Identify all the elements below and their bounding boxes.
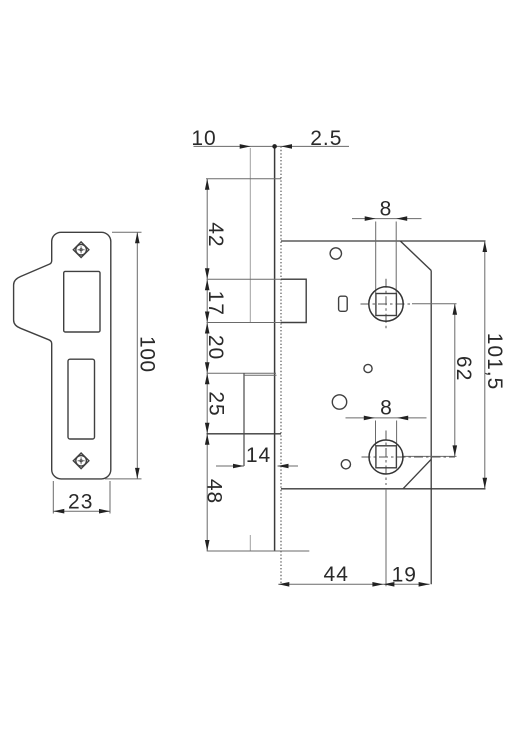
chain arrows 25 bbox=[205, 373, 210, 434]
dim 101.5 arrows bbox=[483, 241, 488, 489]
shared dim dot bbox=[272, 144, 277, 149]
lock case bottom-right chamfer bbox=[403, 459, 431, 489]
lock case front hidden edge bbox=[280, 146, 282, 584]
dim 23 line bbox=[53, 510, 110, 512]
follower upper centerline vertical bbox=[385, 279, 387, 329]
dim 62 arrows bbox=[453, 304, 458, 457]
svg-text:42: 42 bbox=[204, 222, 227, 247]
svg-text:48: 48 bbox=[203, 479, 226, 504]
screw post hole top bbox=[330, 248, 341, 259]
svg-text:2.5: 2.5 bbox=[310, 127, 342, 150]
chain arrows 17 bbox=[205, 279, 210, 322]
follower centerline extension to bottom dims bbox=[385, 489, 387, 586]
follower upper centerline horizontal bbox=[361, 303, 413, 305]
dim 2.5 arrow bbox=[281, 144, 292, 149]
dim 62 extension lower bbox=[402, 455, 457, 457]
dim 14 line right part bbox=[278, 465, 299, 467]
lock case right edge + 19 extension bbox=[430, 271, 432, 585]
svg-text:19: 19 bbox=[392, 564, 417, 587]
dim 44 arrows bbox=[278, 582, 383, 587]
dim 14 arrows bbox=[233, 464, 289, 469]
dim 14 line left part bbox=[216, 465, 244, 467]
svg-text:8: 8 bbox=[380, 397, 392, 420]
small hole mid bbox=[364, 364, 372, 372]
dim 8 lower line bbox=[346, 417, 427, 419]
chain arrows 42 bbox=[205, 179, 210, 279]
svg-text:8: 8 bbox=[380, 198, 392, 221]
follower square hole upper bbox=[376, 294, 397, 316]
deadbolt top extension bbox=[207, 372, 277, 374]
follower lower centerline vertical bbox=[385, 431, 387, 486]
svg-text:23: 23 bbox=[68, 490, 93, 513]
keyhole slot bbox=[339, 296, 348, 311]
strike plate lower cutout bbox=[68, 359, 95, 439]
svg-text:25: 25 bbox=[205, 391, 228, 416]
lock case bottom edge + 101.5 bottom extension bbox=[281, 488, 486, 490]
strike plate bottom screw hole bbox=[73, 453, 89, 469]
follower hub upper circle bbox=[369, 287, 403, 321]
chain arrows 20 bbox=[205, 323, 210, 374]
svg-text:20: 20 bbox=[204, 335, 227, 360]
dim 8 upper extensions bbox=[376, 222, 397, 294]
dim 44 19 line bbox=[278, 583, 429, 585]
dim 10 arrow bbox=[240, 144, 251, 149]
lock case top-right chamfer bbox=[400, 241, 431, 271]
svg-text:44: 44 bbox=[324, 563, 349, 586]
faceplate strip left edge bbox=[249, 148, 251, 551]
svg-text:17: 17 bbox=[204, 291, 227, 316]
svg-text:101,5: 101,5 bbox=[483, 333, 506, 391]
dim 100 arrows bbox=[135, 232, 140, 479]
strike plate top screw hole bbox=[73, 242, 89, 258]
follower hub lower circle bbox=[369, 440, 403, 474]
dim 8 lower extensions bbox=[376, 421, 397, 446]
faceplate strip top edge bbox=[206, 178, 281, 180]
latch bolt bottom edge + extension bbox=[207, 322, 307, 324]
follower square hole lower bbox=[376, 446, 397, 468]
chain arrows 48 bbox=[205, 434, 210, 551]
faceplate strip right edge bbox=[274, 146, 276, 551]
svg-text:62: 62 bbox=[452, 356, 475, 382]
strike plate outline bbox=[14, 232, 111, 479]
left dimension chain line bbox=[206, 179, 208, 551]
svg-text:10: 10 bbox=[191, 127, 216, 150]
dim 62 line bbox=[454, 304, 456, 457]
latch bolt top edge + extension bbox=[207, 278, 307, 280]
dim 8 upper line bbox=[352, 218, 422, 220]
faceplate strip bottom edge bbox=[207, 550, 310, 552]
dim 23 arrows bbox=[53, 509, 110, 514]
deadbolt bottom edge + extension bbox=[207, 433, 282, 435]
deadbolt top edge bbox=[244, 374, 277, 376]
dim 8 lower arrows bbox=[364, 416, 408, 421]
strike plate upper cutout bbox=[64, 271, 100, 332]
svg-text:100: 100 bbox=[135, 336, 158, 373]
dim 8 upper arrows bbox=[365, 216, 408, 221]
dim 62 extension upper bbox=[412, 303, 457, 305]
svg-text:14: 14 bbox=[246, 444, 271, 467]
dim 101.5 line bbox=[484, 241, 486, 489]
screw post hole lower bbox=[332, 395, 346, 409]
dim 23 extension lines bbox=[53, 481, 110, 514]
follower lower centerline horizontal bbox=[362, 456, 456, 458]
latch bolt body bbox=[281, 279, 306, 322]
dim 10 / 2.5 line bbox=[194, 145, 350, 147]
dim 100 line bbox=[136, 232, 138, 479]
deadbolt face bbox=[243, 373, 245, 466]
dim 100 extension lines bbox=[105, 232, 142, 479]
dim 19 arrows bbox=[383, 582, 429, 587]
small hole bottom bbox=[341, 460, 350, 469]
lock case top edge + 101.5 top extension bbox=[281, 240, 486, 242]
